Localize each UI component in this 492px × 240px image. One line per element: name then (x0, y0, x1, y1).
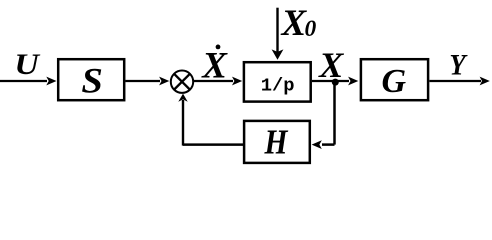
wire 1/p to G (312, 80, 349, 82)
svg-text:X: X (281, 3, 308, 44)
svg-text:Y: Y (449, 48, 468, 81)
wire S to summer (126, 80, 161, 82)
svg-text:U: U (14, 48, 40, 81)
arrowhead down into 1/p top (272, 49, 284, 59)
wire feedback: left vertical up to summer (182, 100, 184, 146)
dot of Xdot (216, 45, 221, 50)
block H (244, 121, 310, 163)
wire feedback: junction down (333, 82, 336, 145)
wire output Y (430, 80, 482, 82)
block 1/p (integrator) (244, 62, 311, 101)
arrowhead into 1/p (232, 77, 242, 86)
junction node on X line (332, 79, 339, 86)
svg-text:S: S (81, 60, 103, 100)
wire input U (0, 80, 47, 82)
summer (circle with cross) (171, 71, 193, 93)
svg-text:G: G (382, 63, 407, 100)
wire summer to 1/p (193, 80, 233, 82)
wire feedback: right horizontal into H (322, 143, 335, 146)
svg-text:X: X (318, 45, 344, 85)
block G (361, 59, 428, 100)
wire initial condition X0 (vertical) (276, 8, 278, 52)
wire feedback: H to left (183, 143, 243, 146)
arrowhead into S (46, 77, 56, 86)
block S (58, 59, 124, 100)
arrowhead into H right side (312, 140, 322, 149)
arrowhead up into summer bottom (178, 94, 187, 102)
arrowhead into G (348, 77, 358, 86)
svg-text:1/p: 1/p (261, 74, 295, 96)
svg-text:H: H (264, 124, 289, 162)
svg-text:0: 0 (305, 16, 317, 42)
arrowhead output (480, 77, 490, 86)
arrowhead into summer (159, 77, 169, 86)
